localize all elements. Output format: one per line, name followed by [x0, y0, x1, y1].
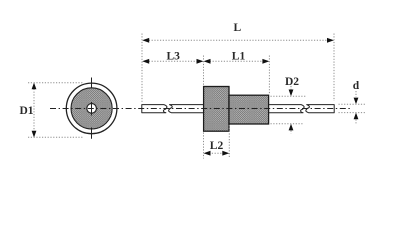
front view outer circle	[66, 83, 117, 134]
dimension d extension line bottom	[339, 112, 367, 114]
dimension L3 line	[146, 60, 200, 62]
dimension L extension line left	[141, 34, 143, 103]
shaft piece 2	[169, 105, 205, 113]
dimension L1 arrow right	[262, 59, 269, 64]
svg-text:L2: L2	[210, 140, 224, 152]
extension line body left top	[203, 56, 205, 86]
dimension L2 extension line right	[228, 125, 230, 159]
dimension D1 arrow up	[32, 83, 37, 90]
shaft piece 1 (left)	[142, 105, 167, 113]
shaft piece 4 (right)	[306, 105, 334, 113]
svg-text:L: L	[233, 22, 241, 34]
dimension L2 line	[209, 152, 224, 154]
dimension L line	[146, 39, 330, 41]
body large cylinder (hatched)	[204, 87, 229, 132]
main horizontal centerline	[50, 108, 350, 110]
dimension d arrow top	[355, 91, 357, 97]
dimension L3 arrow left	[142, 59, 149, 64]
dimension L2 arrow left	[204, 151, 211, 156]
dimension D1 extension line top	[28, 82, 83, 84]
dimension L2 arrow right	[222, 151, 229, 156]
dimension L1 arrow left	[204, 59, 211, 64]
dimension D1 extension line bottom	[28, 136, 83, 138]
dimension L arrow left	[142, 38, 149, 43]
dimension D2 extension line bottom	[271, 123, 305, 125]
svg-text:L1: L1	[232, 51, 246, 63]
dimension d arrow bottom	[354, 113, 359, 120]
dimension L2 extension line left	[203, 133, 205, 159]
svg-text:D2: D2	[285, 76, 299, 88]
dimension L extension line right	[333, 34, 335, 102]
body small cylinder (hatched)	[229, 95, 269, 124]
dimension L3 arrow right	[197, 59, 204, 64]
svg-text:D1: D1	[19, 105, 33, 117]
front view vertical centerline	[91, 78, 93, 139]
dimension d extension line top	[339, 103, 367, 105]
front view center hole	[87, 104, 97, 114]
dimension D1 arrow down	[32, 131, 37, 138]
extension line body right top	[268, 56, 270, 95]
svg-text:L3: L3	[166, 50, 180, 62]
front view hatched ring	[71, 88, 112, 129]
dimension L arrow right	[327, 38, 334, 43]
dimension D2 arrow bottom	[289, 124, 294, 131]
svg-text:d: d	[353, 80, 360, 92]
dimension D2 extension line top	[271, 95, 306, 97]
dimension L1 line	[207, 60, 266, 62]
shaft piece 3	[267, 105, 304, 113]
dimension D1 line	[33, 86, 35, 134]
dimension D2 arrow top	[290, 86, 292, 91]
